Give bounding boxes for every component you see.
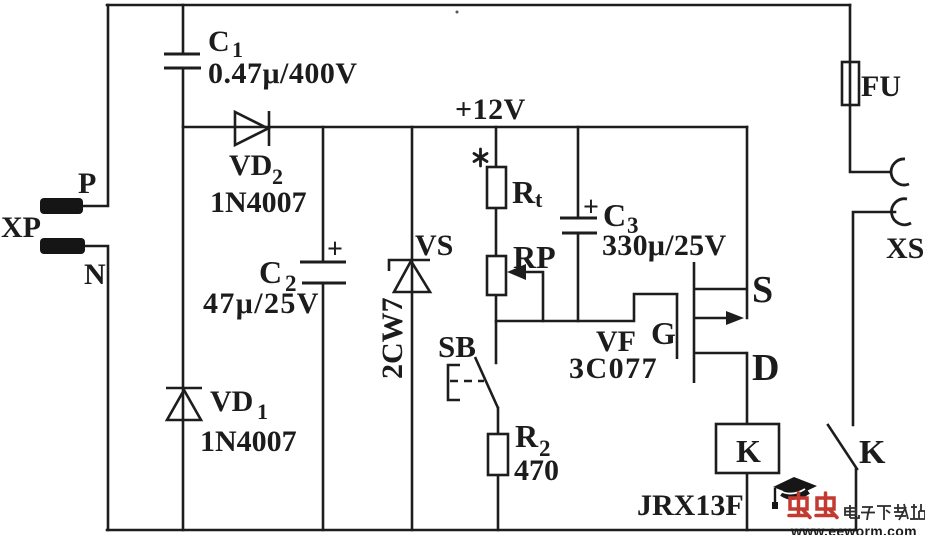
svg-text:3C077: 3C077 xyxy=(569,352,658,385)
watermark graduation cap xyxy=(772,477,817,509)
wire relay K to bottom border xyxy=(746,473,749,530)
wire C2 branch lower xyxy=(322,283,325,530)
svg-text:47μ/25V: 47μ/25V xyxy=(203,287,320,320)
potentiometer RP xyxy=(487,256,506,295)
label asterisk xyxy=(474,149,487,166)
potentiometer RP wiper arrow xyxy=(507,264,526,280)
svg-text:XP: XP xyxy=(1,211,41,244)
svg-text:FU: FU xyxy=(861,70,901,103)
wire RP wiper to gate net xyxy=(522,272,543,321)
svg-text:1N4007: 1N4007 xyxy=(210,186,307,219)
svg-text:RP: RP xyxy=(513,239,556,275)
zener diode VS xyxy=(389,260,430,292)
wire gate net xyxy=(496,294,677,321)
svg-text:C: C xyxy=(603,197,626,233)
svg-text:C: C xyxy=(208,25,230,58)
wire drain down to relay K xyxy=(746,353,749,424)
wire Rt/RP branch xyxy=(495,127,498,363)
svg-text:R: R xyxy=(515,418,539,454)
watermark chongchong char 1 xyxy=(789,493,810,518)
wire C2 branch upper xyxy=(322,127,325,262)
svg-text:VD: VD xyxy=(210,385,253,418)
svg-text:XS: XS xyxy=(886,232,924,265)
switch K blade xyxy=(828,425,857,469)
diode VD1 xyxy=(166,388,202,420)
svg-text:VD: VD xyxy=(229,149,272,182)
svg-text:SB: SB xyxy=(438,329,476,364)
wire rail down to source xyxy=(746,127,749,318)
wire lower socket contact to switch K xyxy=(853,212,895,425)
svg-text:S: S xyxy=(752,269,773,311)
socket XS lower contact xyxy=(891,199,911,225)
wire left vertical through VD1 xyxy=(182,68,185,530)
svg-text:+: + xyxy=(583,192,599,223)
svg-text:1: 1 xyxy=(257,399,268,424)
plug XP pin N xyxy=(40,238,85,254)
svg-text:+: + xyxy=(327,234,343,265)
svg-text:N: N xyxy=(84,258,106,291)
svg-text:K: K xyxy=(736,433,761,469)
wire left border upper (P side) xyxy=(82,5,108,206)
svg-text:D: D xyxy=(752,347,779,389)
pushbutton SB actuator xyxy=(448,357,498,408)
diode VD2 xyxy=(235,111,269,146)
MOSFET VF drain lead xyxy=(694,352,747,355)
fuse FU xyxy=(842,62,859,105)
wire +12V rail xyxy=(183,126,747,129)
svg-text:JRX13F: JRX13F xyxy=(637,489,744,522)
svg-text:P: P xyxy=(78,167,96,200)
socket XS upper contact xyxy=(891,159,909,185)
wire switch K to bottom border xyxy=(855,469,858,530)
MOSFET VF gate bar xyxy=(676,293,679,359)
wire C3 branch upper xyxy=(577,127,580,218)
capacitor C1 xyxy=(164,54,201,68)
node dot (speck on top border) xyxy=(456,11,459,14)
svg-text:VS: VS xyxy=(415,229,453,262)
resistor Rt xyxy=(487,167,506,208)
svg-text:330μ/25V: 330μ/25V xyxy=(602,229,726,262)
MOSFET VF substrate arrow lead xyxy=(694,317,740,320)
wire right side through fuse to upper socket contact xyxy=(850,5,891,172)
wire SB to R2 to bottom xyxy=(497,408,500,530)
capacitor C2 xyxy=(300,262,346,283)
watermark chongchong char 2 xyxy=(816,493,837,518)
wire bottom border xyxy=(107,529,856,532)
plug XP pin P xyxy=(40,198,83,214)
svg-text:0.47μ/400V: 0.47μ/400V xyxy=(208,57,358,90)
wire left border lower (N side) xyxy=(84,246,108,530)
wire C3 branch lower xyxy=(577,233,580,321)
svg-text:t: t xyxy=(535,187,543,212)
svg-text:www.eeworm.com: www.eeworm.com xyxy=(790,523,917,535)
MOSFET VF source lead xyxy=(694,288,747,291)
wire C1 top lead xyxy=(182,5,185,54)
svg-text:+12V: +12V xyxy=(455,93,526,126)
svg-text:G: G xyxy=(651,315,676,351)
svg-text:470: 470 xyxy=(514,454,559,487)
capacitor C3 xyxy=(560,218,597,233)
svg-text:R: R xyxy=(512,174,536,210)
wire top border xyxy=(107,4,850,7)
watermark text dianzi xiazaizhan xyxy=(845,504,925,520)
svg-text:1N4007: 1N4007 xyxy=(200,425,297,458)
resistor R2 xyxy=(488,434,508,475)
wire VS branch xyxy=(411,127,414,530)
svg-text:K: K xyxy=(859,434,886,471)
relay K coil box xyxy=(716,424,779,473)
svg-text:C: C xyxy=(259,254,282,290)
svg-text:2CW7: 2CW7 xyxy=(376,297,409,379)
MOSFET VF channel bar xyxy=(693,262,696,383)
